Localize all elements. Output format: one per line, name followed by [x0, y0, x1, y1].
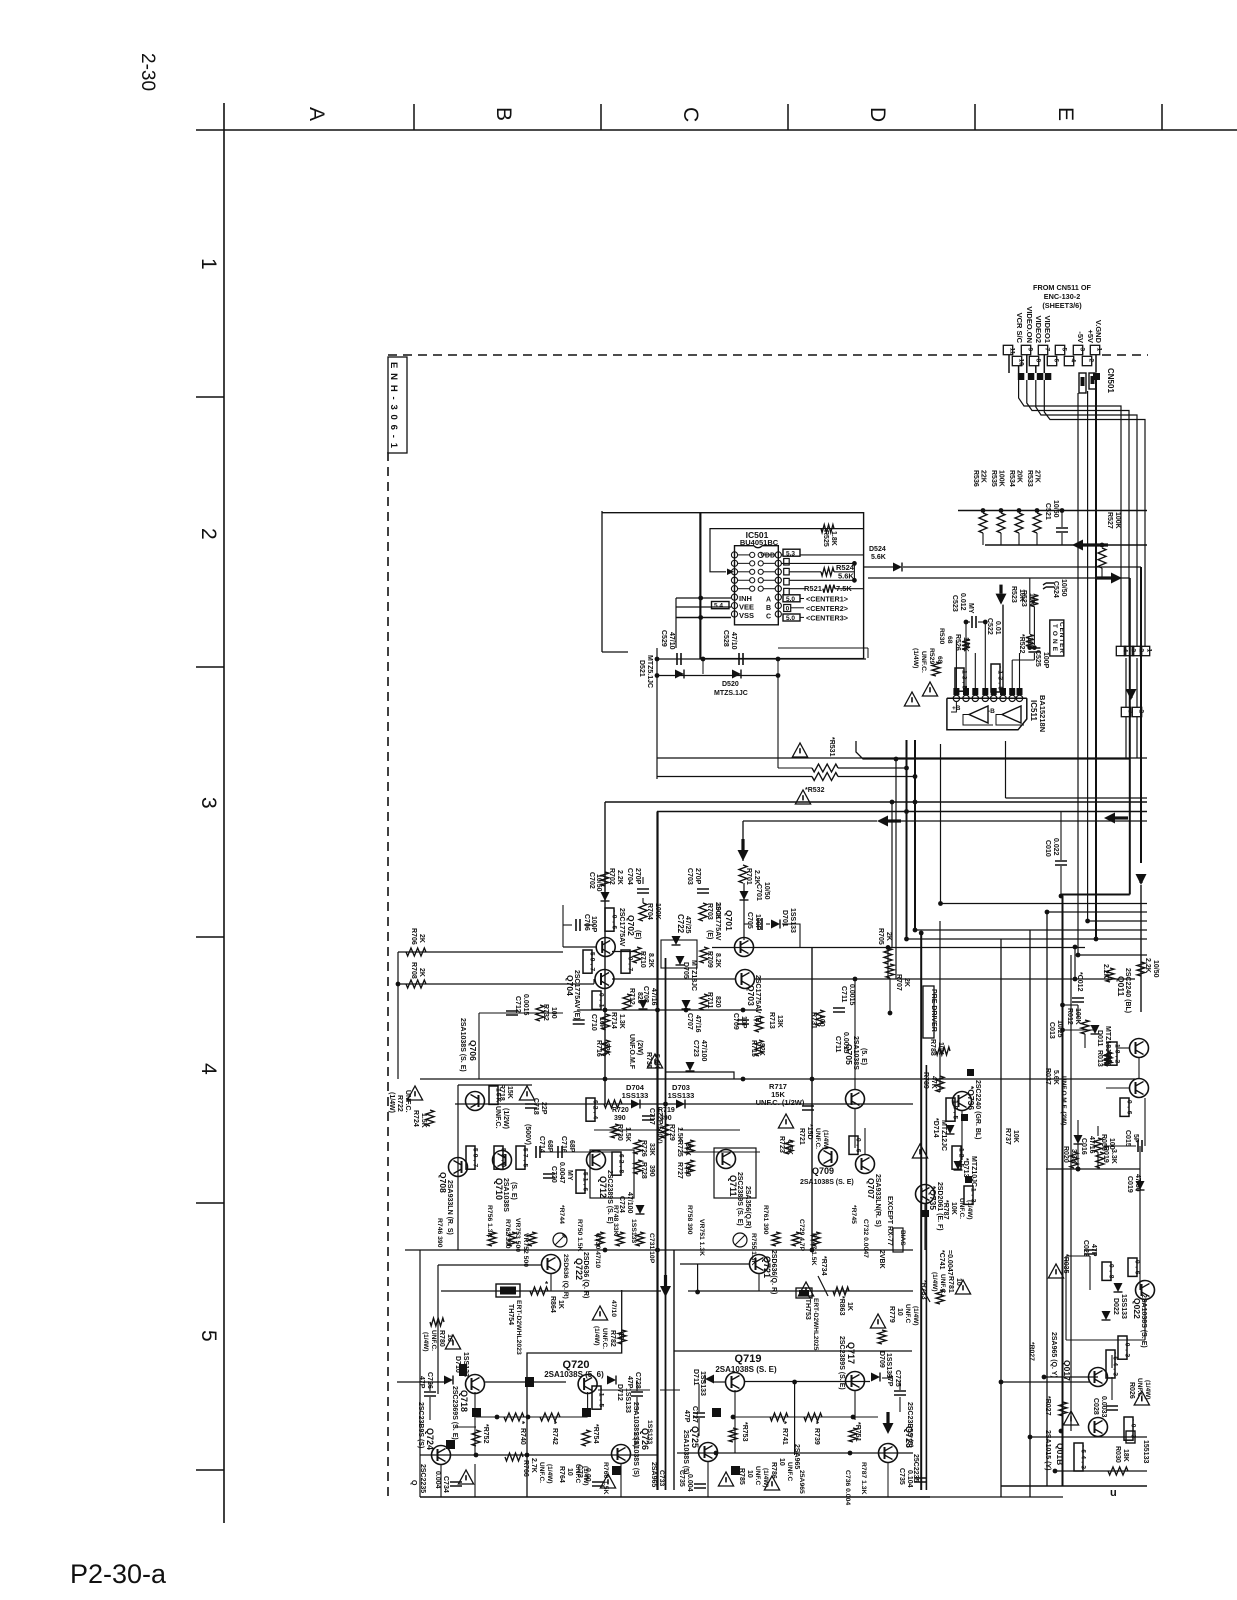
caution triangle	[407, 1086, 422, 1100]
wire	[882, 1377, 893, 1379]
svg-text:R730: R730	[616, 1124, 623, 1141]
svg-text:C702: C702	[588, 872, 595, 889]
svg-text:2SA1038S (S. E): 2SA1038S (S. E)	[459, 1018, 466, 1072]
svg-text:0.6: 0.6	[1133, 1260, 1140, 1275]
wire	[1066, 1339, 1145, 1341]
ferrite bead	[1045, 373, 1052, 380]
svg-text:5: 5	[197, 1330, 220, 1342]
svg-text:0.00: 0.00	[584, 1468, 591, 1482]
svg-text:C711: C711	[840, 986, 847, 1002]
svg-text:Q709: Q709	[812, 1166, 834, 1176]
wire q017 stub	[1111, 1355, 1113, 1368]
resistor R733 1.5K	[849, 1136, 858, 1154]
wire y1437 q018	[1030, 1436, 1147, 1438]
svg-text:R766: R766	[522, 1460, 529, 1477]
connector CN501 pin 10	[1012, 356, 1021, 365]
wire	[680, 1129, 740, 1131]
wire video1 ribbon	[1044, 380, 1145, 646]
border tick	[974, 104, 976, 130]
svg-text:(1/4W): (1/4W)	[822, 1130, 829, 1150]
svg-text:R536: R536	[972, 470, 979, 487]
resistor R734 diag	[818, 1276, 828, 1296]
svg-text:V.GND: V.GND	[1094, 320, 1103, 344]
svg-text:0.6: 0.6	[1125, 1100, 1132, 1115]
capacitor C016 47/16	[1074, 1135, 1083, 1144]
transistor Q707 2SA933LN	[856, 1155, 875, 1174]
resistor R533 27K	[1035, 508, 1040, 513]
svg-text:R702: R702	[608, 868, 615, 885]
arrow down x665	[660, 1286, 671, 1297]
wire y821 b	[901, 820, 1147, 822]
inductor box pin3	[1079, 373, 1086, 393]
svg-text:R527: R527	[1106, 512, 1113, 529]
board label ENH-306-1	[388, 357, 407, 453]
capacitor C709 10P	[737, 1020, 749, 1024]
svg-text:UNF.C.: UNF.C.	[814, 1128, 821, 1149]
wire y1351	[674, 1350, 912, 1352]
IC501 inner pin dots	[750, 586, 755, 591]
wire base q720	[485, 1381, 566, 1383]
svg-text:2SA356(Q.R): 2SA356(Q.R)	[744, 1186, 751, 1228]
junction block d	[446, 1440, 455, 1449]
svg-text:100K: 100K	[1114, 512, 1121, 529]
svg-text:R026: R026	[1128, 1382, 1135, 1399]
wire q011 base b	[1106, 1087, 1129, 1089]
junction block b	[472, 1408, 481, 1417]
svg-text:R713: R713	[768, 1012, 775, 1029]
svg-text:ENC-130-2: ENC-130-2	[1044, 292, 1081, 301]
voltage box 0.7	[621, 950, 630, 973]
resistor *R739	[804, 1413, 822, 1421]
wire	[961, 1110, 963, 1160]
svg-text:9: 9	[1027, 348, 1034, 352]
svg-text:0.8: 0.8	[1107, 1264, 1114, 1279]
wire y567	[903, 566, 1141, 568]
transistor Q022 2SA1038S	[1136, 1281, 1155, 1300]
svg-text:*C741: *C741	[938, 1250, 945, 1270]
border left line	[223, 103, 225, 1523]
voltage box 59.7	[583, 950, 592, 973]
svg-text:5.6K: 5.6K	[871, 554, 886, 561]
wire to d524	[864, 566, 893, 568]
wire x676 down	[675, 598, 677, 648]
wire video.on ribbon	[1027, 380, 1129, 646]
wire q705 down	[854, 1109, 856, 1148]
board outline dashed left	[387, 452, 389, 1497]
diode D011 MTZ18JC	[1091, 1025, 1100, 1034]
resistor R525 1.8K	[821, 525, 834, 533]
box around Q712	[590, 1150, 634, 1198]
resistor *R741	[770, 1413, 788, 1421]
svg-text:3: 3	[1130, 649, 1137, 653]
wire pin1	[1095, 355, 1097, 372]
wire	[887, 945, 889, 979]
wire c012	[1063, 1004, 1079, 1006]
svg-text:R756 1.3K: R756 1.3K	[486, 1205, 493, 1238]
svg-text:47/10: 47/10	[730, 632, 737, 650]
connector CN501 pin 1	[1090, 345, 1099, 354]
svg-text:2: 2	[1138, 710, 1145, 714]
wire x1005	[1005, 741, 1007, 798]
svg-text:2VBK: 2VBK	[878, 1250, 885, 1269]
transistor Q011 b	[1130, 1079, 1149, 1098]
box around Q711	[714, 1148, 756, 1198]
svg-text:D705: D705	[682, 962, 689, 979]
IC501 inner pin dots	[750, 578, 755, 583]
IC511 pin number box	[1000, 688, 1006, 695]
svg-text:R748 33K: R748 33K	[612, 1205, 619, 1236]
wires above IC511 pins	[955, 640, 957, 695]
diode *D714 MTZ12JC	[946, 1125, 955, 1134]
wire	[867, 648, 869, 658]
svg-text:2SD2061 (E. F): 2SD2061 (E. F)	[936, 1182, 943, 1231]
arrow left y818	[1104, 813, 1115, 824]
border tick	[196, 1469, 224, 1471]
svg-text:*R744: *R744	[558, 1205, 565, 1224]
wire +5V long	[1087, 391, 1089, 921]
transistor Q017	[1089, 1368, 1108, 1387]
capacitor C727 47P	[693, 1413, 705, 1417]
svg-text:*R027: *R027	[1044, 1396, 1051, 1416]
resistor R711 820	[700, 994, 708, 1010]
junction block f	[712, 1408, 721, 1417]
wire	[924, 1204, 926, 1250]
connector CN501 pin 7	[1038, 345, 1047, 354]
svg-text:R533: R533	[1026, 470, 1033, 487]
wire q011 link	[1138, 1058, 1140, 1078]
svg-text:0.0015: 0.0015	[842, 1032, 849, 1054]
svg-text:10K: 10K	[950, 1202, 957, 1215]
svg-text:0.0047: 0.0047	[558, 1162, 565, 1184]
IC511 pin number box	[982, 688, 988, 695]
resistor R058 100	[1094, 1138, 1102, 1152]
voltage box 5.4 left	[712, 602, 730, 609]
wire base y947	[712, 947, 1085, 949]
wire row2	[782, 562, 855, 564]
op-amp A in IC511	[969, 706, 988, 723]
svg-text:2K: 2K	[418, 968, 425, 977]
svg-text:R725: R725	[676, 1140, 683, 1157]
svg-text:2SC2240 (GR. BL): 2SC2240 (GR. BL)	[974, 1080, 981, 1140]
svg-text:Q: Q	[410, 1480, 417, 1486]
svg-text:C015: C015	[1124, 1130, 1131, 1147]
svg-text:R525: R525	[822, 530, 829, 547]
svg-text:1.5K: 1.5K	[786, 1140, 793, 1155]
wire	[743, 883, 745, 940]
svg-text:1: 1	[1146, 649, 1153, 653]
wire pin8	[1035, 366, 1037, 373]
diode D711 1SS133	[705, 1375, 714, 1384]
wire y979 right	[754, 978, 1135, 980]
wire base y979	[612, 978, 736, 980]
bus y1079	[420, 1078, 1135, 1080]
svg-text:(E): (E)	[634, 930, 641, 939]
svg-text:*15D: *15D	[806, 1124, 813, 1140]
transistor Q726 2SA1038S	[612, 1445, 631, 1464]
pin number boxes right	[784, 559, 790, 566]
svg-text:MTZ18JC: MTZ18JC	[690, 960, 697, 991]
svg-text:C523: C523	[951, 595, 958, 612]
transistor Q018	[1089, 1418, 1108, 1437]
caution triangle	[592, 1306, 607, 1320]
svg-text:4: 4	[1122, 649, 1129, 653]
transistor Q709 2SA1038S	[819, 1148, 838, 1167]
svg-text:10/50: 10/50	[595, 874, 602, 892]
wire r058	[1097, 1126, 1099, 1136]
resistor R019 3.3K	[1096, 1152, 1104, 1168]
svg-text:68: 68	[946, 636, 953, 644]
svg-text:C709: C709	[732, 1013, 739, 1030]
svg-text:VIDEO1: VIDEO1	[1043, 315, 1052, 343]
variable resistor VR751	[733, 1233, 747, 1247]
wire	[479, 1012, 563, 1014]
svg-text:Q724: Q724	[425, 1428, 435, 1450]
svg-text:VDD: VDD	[760, 553, 775, 560]
svg-text:C521: C521	[1044, 503, 1051, 520]
svg-text:390: 390	[648, 1165, 655, 1177]
svg-text:ERT-D2WHL2025: ERT-D2WHL2025	[812, 1298, 819, 1351]
svg-text:E: E	[1054, 107, 1077, 121]
IC511 pin circle	[972, 695, 978, 701]
capacitor C714 68P	[536, 1146, 540, 1158]
bus y758	[657, 757, 1147, 759]
wire y1291 right	[688, 1290, 913, 1292]
IC IC501 outer wiring box	[700, 513, 864, 659]
svg-text:2: 2	[197, 528, 220, 540]
svg-text:C016: C016	[1080, 1138, 1087, 1155]
svg-text:C720: C720	[550, 1166, 557, 1183]
resistor R726 33K	[634, 1140, 642, 1154]
board outline dashed top	[388, 354, 1003, 356]
svg-text:(500V): (500V)	[656, 1124, 663, 1144]
ferrite bead	[1037, 373, 1044, 380]
resistor *R753	[729, 1428, 737, 1442]
svg-text:R737: R737	[1004, 1128, 1011, 1145]
variable resistor VR752	[553, 1233, 567, 1247]
svg-text:C: C	[766, 613, 771, 620]
svg-text:VR751 1.3K: VR751 1.3K	[698, 1219, 705, 1256]
IC511 pin circle	[1000, 695, 1006, 701]
svg-text:2-30: 2-30	[137, 53, 158, 91]
wire y659	[657, 658, 866, 660]
diode D022b	[1102, 1311, 1111, 1320]
bus y1250	[405, 1249, 913, 1251]
svg-text:1SS133: 1SS133	[1120, 1294, 1127, 1319]
op-amp feedback wires	[951, 702, 956, 712]
svg-text:1K: 1K	[557, 1300, 564, 1309]
svg-text:R724: R724	[412, 1110, 419, 1127]
svg-text:2SA965: 2SA965	[793, 1444, 800, 1469]
wire	[478, 1013, 480, 1079]
svg-text:15K: 15K	[506, 1086, 513, 1099]
wire	[642, 877, 644, 884]
svg-text:3.3K: 3.3K	[1070, 1149, 1077, 1164]
wire x605 down	[604, 802, 606, 1104]
IC501 inner pin dots	[750, 561, 755, 566]
IC511 pin number box	[953, 688, 959, 695]
svg-text:*D714: *D714	[932, 1118, 939, 1138]
svg-text:2SA1038S: 2SA1038S	[502, 1178, 509, 1212]
wire x926	[925, 1065, 927, 1490]
svg-text:R779: R779	[888, 1306, 895, 1323]
svg-text:MTZ12JC: MTZ12JC	[940, 1120, 947, 1151]
capacitor C712 0.0015	[506, 1011, 518, 1015]
svg-text:C730 47/10: C730 47/10	[594, 1233, 601, 1268]
svg-text:2SC2389S (S. E): 2SC2389S (S. E)	[606, 1170, 613, 1224]
diode D520 MTZ5.1JC	[732, 670, 741, 679]
svg-text:6: 6	[1053, 359, 1060, 363]
svg-text:(2W): (2W)	[636, 1040, 643, 1055]
caution triangle	[795, 790, 810, 804]
wire x892	[891, 802, 893, 947]
resistor R535 100K	[999, 508, 1004, 513]
wire q721 e	[758, 1274, 760, 1291]
IC511 pin number box	[972, 688, 978, 695]
svg-text:*R027: *R027	[1028, 1342, 1035, 1361]
svg-text:R728: R728	[640, 1162, 647, 1179]
svg-text:R530: R530	[938, 628, 945, 644]
svg-text:R781: R781	[947, 1276, 954, 1293]
svg-text:47P: 47P	[886, 1374, 893, 1387]
wire video2 ribbon	[1036, 380, 1137, 646]
border tick	[196, 936, 224, 938]
resistor zig row right	[733, 1416, 878, 1418]
svg-text:5.3: 5.3	[786, 550, 795, 557]
wire x1030 down	[1029, 930, 1031, 1497]
resistor R536 22K	[981, 508, 986, 513]
svg-text:CN501: CN501	[1106, 368, 1115, 393]
wire q726 emitter	[620, 1464, 622, 1497]
svg-text:10: 10	[778, 1458, 785, 1466]
svg-text:8.2K: 8.2K	[647, 953, 654, 968]
svg-text:*R863: *R863	[838, 1296, 845, 1316]
wire q724 emitter	[440, 1464, 442, 1497]
voltage boxes right	[946, 1098, 955, 1121]
resistor R728 390	[634, 1160, 642, 1174]
dots ladder	[1045, 910, 1050, 915]
wire ic511 out	[856, 741, 1129, 759]
svg-text:1.5K: 1.5K	[420, 1113, 427, 1128]
wire y1471	[1055, 1470, 1147, 1472]
resistor R701 2.2K	[739, 865, 747, 883]
voltage box 5.0 C	[783, 614, 800, 621]
capacitor C524 10/50	[1043, 583, 1054, 589]
svg-text:P2-30-a: P2-30-a	[70, 1559, 167, 1589]
svg-text:1SS133: 1SS133	[624, 1388, 631, 1413]
svg-text:0.01: 0.01	[994, 621, 1001, 635]
capacitor C023 47P	[1084, 1250, 1096, 1254]
wire	[838, 767, 907, 769]
IC511 pin circle	[1009, 695, 1015, 701]
capacitor C711 0.0015	[833, 1008, 845, 1012]
svg-text:C717: C717	[648, 1108, 655, 1125]
bus y813	[657, 811, 1147, 813]
svg-text:R710: R710	[639, 951, 646, 968]
svg-text:C735: C735	[678, 1470, 685, 1487]
svg-text:270P: 270P	[634, 868, 641, 885]
connector CN501 pin 4	[1064, 356, 1073, 365]
wire v.gnd long	[1095, 380, 1097, 939]
capacitor C028 0.0033	[1106, 1406, 1118, 1410]
black box	[965, 1176, 972, 1183]
svg-text:2.2K: 2.2K	[616, 870, 623, 885]
svg-text:=0.0047: =0.0047	[946, 1250, 953, 1276]
svg-text:IC511: IC511	[1029, 700, 1038, 721]
svg-text:R742: R742	[551, 1428, 558, 1445]
wire x812	[811, 947, 813, 1250]
transistor Q718 2SC2369S	[466, 1375, 485, 1394]
wire inh	[676, 597, 731, 599]
resistor R731 100	[816, 1010, 824, 1026]
svg-text:8.2K: 8.2K	[714, 953, 721, 968]
border top line	[196, 129, 1237, 131]
resistor R705 2K	[884, 948, 892, 964]
svg-text:10/50: 10/50	[1060, 579, 1067, 597]
svg-text:C711: C711	[834, 1036, 841, 1052]
svg-text:2: 2	[1088, 359, 1095, 363]
left wires of IC501	[700, 513, 702, 659]
svg-text:R786: R786	[770, 1462, 777, 1479]
resistor *R752	[472, 1430, 480, 1446]
wire center2	[791, 607, 804, 609]
capacitor C728 47P	[631, 1392, 643, 1396]
voltage box 5.3	[783, 549, 800, 556]
svg-text:C734: C734	[442, 1476, 449, 1493]
svg-text:D011: D011	[1096, 1030, 1103, 1046]
resistor R723 1.5K	[785, 1140, 793, 1154]
svg-text:C: C	[679, 107, 702, 122]
svg-text:ERT-D2WHL2023: ERT-D2WHL2023	[515, 1300, 522, 1355]
svg-text:5: 5	[1061, 348, 1068, 352]
caution triangle	[458, 1470, 473, 1484]
svg-text:47/100: 47/100	[700, 1040, 707, 1062]
wire x1071	[1070, 955, 1072, 1431]
svg-text:R761 390: R761 390	[762, 1205, 769, 1235]
svg-text:C733: C733	[658, 1470, 665, 1486]
wire y912	[1047, 911, 1147, 913]
svg-text:47/10: 47/10	[610, 1300, 617, 1317]
svg-text:Q717: Q717	[846, 1342, 856, 1364]
bus x1062 heavy down	[1062, 896, 1064, 1486]
svg-text:(1/4W): (1/4W)	[422, 1332, 429, 1352]
svg-text:3.3K: 3.3K	[1110, 1149, 1117, 1164]
svg-text:VIDEO.ON: VIDEO.ON	[1025, 306, 1034, 343]
capacitor C708 47/16	[639, 1000, 648, 1009]
resistor 2.2K right	[1137, 962, 1145, 976]
capacitor C010 0.022	[1055, 861, 1067, 865]
svg-text:UNF.C: UNF.C	[786, 1462, 793, 1481]
wire r012 d011	[1063, 1029, 1096, 1031]
svg-text:2SD636 (Q. R): 2SD636 (Q. R)	[562, 1254, 569, 1299]
border tick	[600, 104, 602, 130]
svg-text:R727: R727	[676, 1162, 683, 1179]
svg-text:1SS133: 1SS133	[699, 1371, 706, 1396]
svg-text:R037: R037	[1044, 1068, 1051, 1085]
wire	[1074, 947, 1076, 979]
svg-text:1.8K: 1.8K	[830, 531, 837, 546]
svg-text:*R754: *R754	[592, 1424, 599, 1444]
wire q722 e	[550, 1274, 552, 1291]
svg-text:390: 390	[684, 1165, 691, 1177]
black box	[922, 1210, 929, 1217]
svg-text:18K: 18K	[1122, 1449, 1129, 1462]
resistor R725 33K	[686, 1140, 694, 1154]
svg-text:D524: D524	[869, 546, 886, 553]
wire x438	[437, 1265, 439, 1394]
svg-text:100P: 100P	[590, 916, 597, 933]
svg-text:820: 820	[714, 996, 721, 1008]
caution triangle	[798, 1282, 813, 1296]
